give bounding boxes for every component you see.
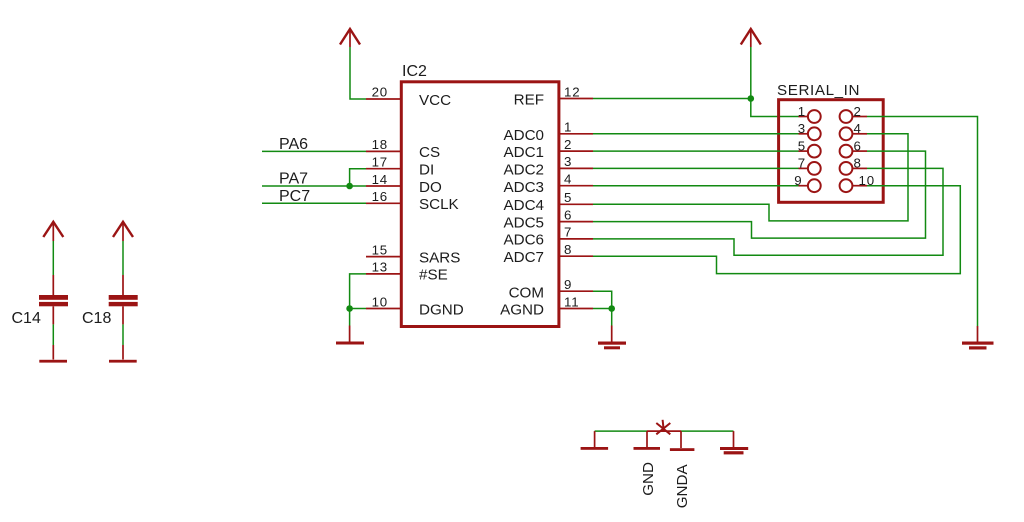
svg-text:2: 2 — [564, 137, 572, 152]
pin 2 stub ADC1 — [559, 150, 593, 152]
svg-text:9: 9 — [564, 277, 572, 292]
bottom net-tie group wire GND segment — [595, 430, 647, 432]
wire ADC7 to pin 10 — [593, 186, 960, 274]
wire down to GND — [349, 309, 351, 326]
svg-text:6: 6 — [564, 207, 572, 222]
connector pads right column — [840, 110, 853, 123]
svg-text:3: 3 — [564, 154, 572, 169]
wire ADC4 to pin 4 — [593, 134, 908, 221]
svg-text:13: 13 — [372, 260, 388, 275]
wire ADC3 to pin 9 — [593, 185, 799, 187]
junction REF/VCC2 — [748, 95, 755, 102]
junction COM/AGND — [608, 305, 615, 312]
pin 3 stub ADC2 — [559, 167, 593, 169]
ground AGND (below IC) — [598, 326, 626, 350]
svg-text:16: 16 — [372, 189, 388, 204]
svg-text:ADC2: ADC2 — [503, 162, 544, 179]
wire VCC1 to pin 20 — [350, 47, 366, 99]
svg-text:DO: DO — [419, 179, 442, 196]
ground GNDA stem 3 — [670, 431, 695, 451]
svg-text:AGND: AGND — [500, 302, 544, 319]
pin 18 stub CS — [366, 150, 400, 152]
wire ADC1 to pin 5 — [593, 150, 799, 152]
pin 9 stub COM — [559, 290, 593, 292]
svg-text:ADC4: ADC4 — [503, 197, 544, 214]
svg-text:ADC5: ADC5 — [503, 214, 544, 231]
svg-text:11: 11 — [564, 294, 579, 309]
pin 4 stub ADC3 — [559, 185, 593, 187]
pin 17 stub DI — [366, 168, 400, 170]
ground AGND (far right) — [962, 326, 994, 350]
pin 5 stub ADC4 — [559, 203, 593, 205]
svg-text:PA6: PA6 — [279, 136, 308, 153]
wire PC7 — [262, 202, 366, 204]
pin 20 stub — [366, 98, 400, 100]
svg-text:#SE: #SE — [419, 267, 448, 284]
svg-text:CS: CS — [419, 144, 440, 161]
svg-text:DI: DI — [419, 162, 434, 179]
pin 13 stub #SE — [366, 273, 400, 275]
svg-text:12: 12 — [564, 84, 580, 99]
pin 6 stub ADC5 — [559, 221, 593, 223]
capacitor C14 — [39, 222, 68, 363]
pin 10 stub DGND — [366, 308, 400, 310]
net-tie red segment — [647, 430, 681, 432]
svg-text:5: 5 — [564, 190, 572, 205]
pin 8 stub ADC7 — [559, 255, 593, 257]
wire DGND — [350, 308, 366, 310]
wire connector pin 2 to ground — [867, 117, 978, 327]
wire down to ground — [611, 309, 613, 326]
supply arrow VCC1 (above IC pin 20) — [340, 29, 360, 47]
pin 12 stub REF — [559, 98, 593, 100]
svg-text:C14: C14 — [12, 310, 41, 327]
svg-text:ADC3: ADC3 — [503, 179, 544, 196]
wire ADC0 to pin 3 — [593, 133, 799, 135]
svg-text:3: 3 — [798, 121, 806, 136]
svg-text:C18: C18 — [82, 310, 111, 327]
ground GND (left of IC) — [336, 326, 364, 345]
svg-text:2: 2 — [854, 104, 862, 119]
wire COM down to AGND — [593, 291, 612, 308]
svg-text:SERIAL_IN: SERIAL_IN — [777, 82, 860, 99]
svg-text:REF: REF — [514, 92, 544, 109]
svg-text:SCLK: SCLK — [419, 196, 459, 213]
pin 1 stub ADC0 — [559, 133, 593, 135]
wire VCC2 down to connector pin 1 — [751, 47, 799, 117]
wire ADC5 to pin 6 — [593, 151, 926, 238]
wire AGND — [593, 308, 612, 310]
svg-text:20: 20 — [372, 85, 388, 100]
connector pads left column — [808, 110, 821, 123]
svg-text:4: 4 — [854, 121, 862, 136]
svg-text:GND: GND — [640, 462, 657, 496]
svg-text:18: 18 — [372, 137, 388, 152]
pin 16 stub SCLK — [366, 202, 400, 204]
svg-text:7: 7 — [798, 156, 806, 171]
connector SERIAL_IN box — [779, 100, 884, 203]
wire REF to junction — [593, 98, 751, 100]
pin 14 stub DO — [366, 185, 400, 187]
ground GNDA stem 4 (double bar) — [720, 431, 748, 454]
svg-text:10: 10 — [372, 294, 388, 309]
svg-text:5: 5 — [798, 138, 806, 153]
IC IC2 body — [401, 82, 559, 327]
svg-text:ADC7: ADC7 — [503, 249, 544, 266]
svg-text:7: 7 — [564, 225, 572, 240]
bottom net-tie group wire GNDA segment — [681, 430, 734, 432]
svg-text:PC7: PC7 — [279, 188, 310, 205]
net collision marker X — [656, 420, 670, 435]
connector pin stubs right — [852, 116, 867, 118]
svg-text:GNDA: GNDA — [674, 464, 691, 509]
ground GND stem 1 — [581, 431, 609, 450]
svg-text:15: 15 — [372, 242, 388, 257]
pin 15 stub SARS — [366, 256, 400, 258]
svg-text:COM: COM — [509, 284, 544, 301]
svg-text:6: 6 — [854, 138, 862, 153]
svg-text:SARS: SARS — [419, 249, 460, 266]
svg-text:IC2: IC2 — [402, 63, 427, 80]
svg-text:8: 8 — [564, 242, 572, 257]
pin 7 stub ADC6 — [559, 238, 593, 240]
svg-text:14: 14 — [372, 172, 388, 187]
supply arrow VCC2 — [741, 29, 761, 47]
svg-text:ADC6: ADC6 — [503, 232, 544, 249]
svg-text:ADC1: ADC1 — [503, 144, 544, 161]
svg-text:8: 8 — [854, 156, 862, 171]
capacitor C18 — [109, 222, 138, 363]
wire PA7 — [262, 185, 366, 187]
svg-text:1: 1 — [564, 120, 572, 135]
wire ADC6 to pin 8 — [593, 168, 943, 255]
junction DGND — [346, 305, 353, 312]
svg-text:4: 4 — [564, 172, 572, 187]
svg-text:17: 17 — [372, 155, 388, 170]
svg-text:ADC0: ADC0 — [503, 127, 544, 144]
ground GND stem 2 — [634, 431, 661, 450]
connector pin stubs left — [799, 116, 809, 118]
wire #SE down to DGND — [350, 274, 366, 309]
wire DI down to PA7 — [350, 169, 366, 186]
pin 11 stub AGND — [559, 308, 593, 310]
junction PA7/DI — [346, 183, 353, 190]
wire ADC2 to pin 7 — [593, 167, 799, 169]
svg-text:DGND: DGND — [419, 301, 464, 318]
svg-text:1: 1 — [798, 104, 806, 119]
svg-text:VCC: VCC — [419, 92, 451, 109]
svg-text:PA7: PA7 — [279, 171, 308, 188]
wire PA6 — [262, 150, 366, 152]
